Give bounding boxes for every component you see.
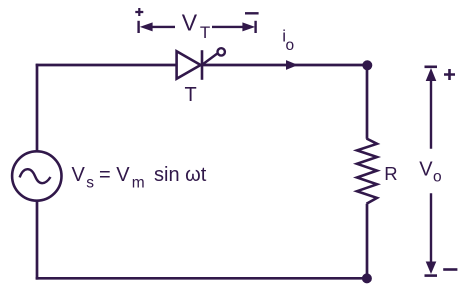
AC source sine wave bbox=[20, 169, 51, 183]
VT left tick bbox=[137, 21, 139, 33]
thyristor T triangle (anode) bbox=[177, 51, 201, 78]
svg-text:R: R bbox=[384, 163, 397, 184]
svg-text:Vs=Vmsin ωt: Vs=Vmsin ωt bbox=[72, 164, 207, 192]
svg-text:T: T bbox=[185, 84, 197, 106]
node dot bottom-right bbox=[362, 273, 372, 283]
thyristor cathode bar bbox=[201, 50, 204, 80]
AC source Vs circle bbox=[12, 151, 61, 200]
resistor R zigzag bbox=[357, 139, 377, 204]
Vo bottom arrowhead bbox=[426, 262, 437, 275]
Vo plus sign bbox=[444, 69, 455, 80]
VT minus sign bbox=[245, 12, 259, 14]
svg-text:o: o bbox=[433, 168, 442, 185]
node dot top-right bbox=[362, 60, 372, 70]
wire right lower (resistor to bottom node) bbox=[366, 204, 369, 278]
wire top segment (thyristor cathode to node A) bbox=[202, 64, 367, 67]
VT left arrow bbox=[140, 22, 175, 31]
wire bottom bbox=[36, 277, 367, 280]
current arrow io on top wire bbox=[286, 60, 298, 70]
wire left upper (top to source) bbox=[36, 64, 39, 152]
VT plus sign bbox=[135, 8, 143, 16]
Vo bottom bar bbox=[425, 274, 438, 277]
Vo top arrowhead bbox=[426, 68, 437, 81]
wire right upper (node to resistor) bbox=[366, 65, 369, 139]
svg-text:o: o bbox=[286, 37, 295, 54]
wire left lower (source to bottom) bbox=[36, 201, 39, 280]
VT right arrow bbox=[212, 22, 255, 31]
Vo top bar bbox=[425, 66, 438, 69]
thyristor gate terminal circle bbox=[218, 48, 225, 55]
Vo upper line bbox=[430, 80, 432, 149]
VT right tick bbox=[254, 21, 256, 33]
svg-text:V: V bbox=[419, 159, 433, 181]
Vo lower line bbox=[430, 193, 432, 263]
thyristor gate lead bbox=[202, 53, 217, 64]
svg-text:V: V bbox=[182, 10, 198, 36]
wire top segment (source to thyristor anode) bbox=[36, 64, 177, 67]
Vo minus sign bbox=[443, 268, 457, 271]
svg-text:T: T bbox=[200, 23, 210, 42]
